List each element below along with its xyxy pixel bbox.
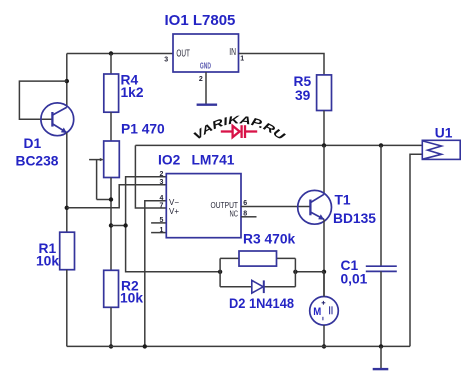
svg-text:U1: U1 — [435, 125, 453, 140]
svg-text:GND: GND — [200, 61, 211, 70]
resistor R3 — [239, 251, 277, 266]
wire D1 emitter down to R1 — [66, 133, 68, 233]
potentiometer P1 body — [104, 141, 120, 178]
wire pin5 stub — [151, 222, 166, 224]
resistor R5 — [317, 75, 332, 111]
wire R2 bottom lead — [110, 307, 112, 346]
svg-text:4: 4 — [160, 195, 164, 202]
motor M — [310, 297, 339, 326]
diode D2 — [252, 280, 264, 293]
svg-text:2: 2 — [199, 76, 203, 83]
ground bar bottom — [373, 368, 389, 370]
node pin3 tap on emitter — [65, 206, 69, 210]
wire R5 bottom lead — [323, 111, 325, 146]
wire C1 bottom lead — [380, 271, 382, 346]
wire ground rail — [67, 345, 410, 347]
wire R1 bottom to ground rail — [66, 270, 68, 347]
svg-text:IN: IN — [229, 47, 236, 58]
svg-text:V−: V− — [169, 198, 179, 207]
svg-text:D2 1N4148: D2 1N4148 — [229, 296, 294, 311]
wire feedback right segment — [295, 271, 324, 273]
wire R4 to P1 — [110, 112, 112, 141]
svg-text:0,01: 0,01 — [341, 271, 368, 286]
wiper arrowhead — [100, 158, 104, 161]
node left bracket — [218, 270, 222, 274]
svg-text:10k: 10k — [120, 291, 143, 306]
wire P1 bottom lead down — [110, 178, 112, 271]
wire motor top lead — [323, 272, 325, 297]
wire R4 top lead — [110, 54, 112, 75]
svg-text:10k: 10k — [36, 254, 59, 269]
wire D1 base loop — [19, 81, 66, 119]
svg-text:1k2: 1k2 — [121, 85, 144, 100]
svg-text:V+: V+ — [169, 207, 179, 216]
node right bracket — [293, 270, 297, 274]
svg-text:1: 1 — [240, 55, 244, 62]
svg-text:1: 1 — [160, 227, 164, 234]
svg-text:39: 39 — [295, 88, 311, 103]
wire +V rail — [135, 144, 422, 146]
node P1 R2 pin2 — [109, 223, 113, 227]
capacitor C1 — [380, 145, 382, 266]
node pin4 on ground rail — [143, 344, 147, 348]
svg-text:BC238: BC238 — [16, 153, 59, 168]
motor plus — [322, 301, 326, 305]
svg-text:7: 7 — [160, 202, 164, 209]
wire T1 emitter down — [323, 219, 325, 296]
svg-text:NC: NC — [230, 210, 239, 219]
resistor R2 — [104, 270, 119, 307]
transistor T1 BD135 — [298, 190, 332, 224]
wire R3 D2 brackets — [220, 258, 295, 286]
wire OUT net top horizontal — [67, 53, 173, 55]
node motor on ground rail — [322, 344, 326, 348]
svg-text:BD135: BD135 — [333, 211, 376, 226]
wire T1 collector — [323, 145, 325, 194]
node base loop junction — [65, 79, 69, 83]
watermark varicap symbol — [221, 125, 257, 138]
wire D1 collector drop — [66, 54, 68, 108]
node ground symbol tap — [379, 344, 383, 348]
svg-text:OUTPUT: OUTPUT — [211, 201, 239, 210]
wire pin4 net to ground rail — [145, 201, 167, 347]
svg-text:R3 470k: R3 470k — [243, 231, 295, 246]
resistor R1 — [60, 232, 75, 270]
svg-text:R5: R5 — [294, 74, 312, 89]
wire U1 lower pin — [410, 154, 422, 346]
svg-text:IO2: IO2 — [158, 152, 181, 167]
wire P1 wiper — [89, 160, 111, 200]
wire IN net to R5 — [239, 54, 325, 75]
regulator IO1 L7805 — [173, 34, 239, 72]
svg-text:5: 5 — [160, 217, 164, 224]
svg-text:OUT: OUT — [176, 48, 190, 59]
wire pin8 NC stub — [241, 216, 257, 218]
resistor R4 — [104, 74, 119, 112]
node wiper join — [109, 197, 113, 201]
wire pin3 net — [67, 185, 167, 208]
connector U1 box — [422, 140, 460, 159]
svg-text:T1: T1 — [335, 192, 351, 207]
node C1 on rail — [379, 143, 383, 147]
svg-text:3: 3 — [160, 179, 164, 186]
connector U1 chevrons — [423, 141, 442, 159]
node pin2 vertical — [123, 223, 127, 227]
node emitter motor feedback — [322, 270, 326, 274]
svg-text:IO1 L7805: IO1 L7805 — [165, 12, 236, 29]
ground bar L7805 — [197, 103, 218, 105]
wire pin2 net — [126, 177, 221, 272]
svg-text:3: 3 — [164, 56, 168, 63]
watermark arc text VARIKAP.RU — [195, 124, 283, 143]
node R2 on ground rail — [109, 344, 113, 348]
wire motor bottom lead — [323, 325, 325, 346]
svg-text:D1: D1 — [24, 136, 42, 151]
op-amp IO2 LM741 — [166, 174, 241, 238]
wire ground stem — [380, 346, 382, 369]
wire pin7 net to +rail — [135, 145, 166, 208]
node R5 T1 collector on rail — [322, 143, 326, 147]
wire pin2 horizontal tie — [111, 225, 126, 227]
wire GND stem — [205, 72, 207, 105]
wire pin6 output to T1 base — [241, 206, 310, 208]
wire pin1 stub — [151, 232, 166, 234]
transistor D1 BC238 — [41, 103, 74, 136]
svg-text:LM741: LM741 — [192, 152, 235, 167]
motor brush bars — [323, 306, 332, 320]
svg-text:M: M — [313, 306, 321, 318]
node R4 top junction — [109, 51, 113, 55]
svg-text:2: 2 — [160, 171, 164, 178]
svg-text:P1 470: P1 470 — [121, 121, 165, 136]
